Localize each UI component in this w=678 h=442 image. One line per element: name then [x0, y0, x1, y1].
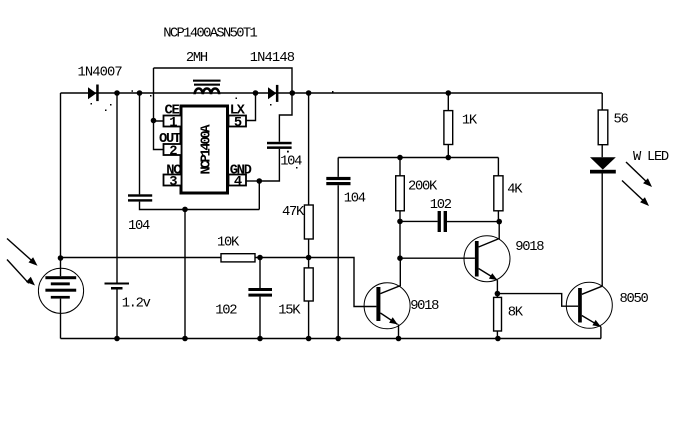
svg-text:47K: 47K — [282, 205, 305, 220]
svg-text:9018: 9018 — [410, 299, 439, 314]
svg-text:104: 104 — [344, 192, 366, 207]
svg-text:1K: 1K — [462, 113, 478, 128]
svg-text:15K: 15K — [278, 303, 301, 318]
svg-text:1.2v: 1.2v — [122, 296, 151, 311]
svg-text:8050: 8050 — [620, 292, 649, 307]
svg-text:1N4148: 1N4148 — [250, 51, 295, 66]
svg-text:102: 102 — [430, 198, 452, 213]
svg-text:10K: 10K — [217, 235, 240, 250]
svg-text:8K: 8K — [508, 306, 524, 321]
svg-text:W LED: W LED — [633, 150, 669, 165]
svg-text:1: 1 — [169, 116, 177, 131]
svg-text:102: 102 — [215, 303, 237, 318]
svg-text:NCP1400ASN50T1: NCP1400ASN50T1 — [163, 26, 257, 41]
svg-text:56: 56 — [614, 112, 629, 127]
svg-text:200K: 200K — [408, 179, 438, 194]
svg-text:4K: 4K — [507, 183, 523, 198]
svg-text:4: 4 — [234, 175, 242, 190]
svg-text:9018: 9018 — [515, 240, 544, 255]
svg-text:2: 2 — [169, 144, 177, 159]
svg-text:5: 5 — [234, 116, 242, 131]
svg-text:1N4007: 1N4007 — [78, 66, 123, 81]
svg-text:3: 3 — [169, 175, 177, 190]
svg-text:104: 104 — [280, 155, 302, 170]
svg-text:2MH: 2MH — [186, 51, 208, 66]
svg-text:104: 104 — [128, 219, 150, 234]
svg-text:NCP1400A: NCP1400A — [200, 124, 215, 175]
